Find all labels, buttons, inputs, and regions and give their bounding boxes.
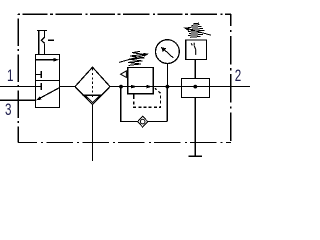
pressure switch S1 adjustable spring — [184, 23, 211, 37]
node junction dot left of regulator — [119, 85, 123, 89]
distributor block D1 — [182, 79, 210, 98]
regulator R1 flow arrows — [131, 85, 152, 89]
check valve CV1 bypass — [121, 87, 167, 128]
valve V1 blocked port lower T — [36, 83, 42, 90]
svg-text:3: 3 — [5, 100, 12, 118]
valve V1 blocked port upper T — [36, 71, 42, 78]
node 3 label — [5, 100, 12, 118]
wire filter drain line — [92, 105, 94, 162]
pressure gauge G1 — [156, 40, 180, 87]
node junction dot gauge stem — [166, 85, 170, 89]
valve V1 exhaust diagonal arrow — [36, 88, 60, 101]
node plugged port T-bar — [189, 155, 203, 157]
node 1 label — [7, 66, 14, 84]
pressure switch S1 body — [186, 40, 207, 60]
regulator R1 adjustable spring — [119, 51, 149, 65]
valve V1 manual slide actuator with detent — [37, 30, 54, 54]
wire port 3 line — [0, 99, 36, 101]
valve V1 top-cell flow arrow — [36, 58, 59, 62]
wire valve to filter — [60, 86, 76, 88]
regulator R1 pilot line (dashed) — [134, 88, 161, 107]
enclosure border (dash-dot) — [18, 14, 231, 142]
node junction dot distributor — [193, 85, 197, 89]
wire port 1 line — [0, 86, 36, 88]
svg-text:1: 1 — [7, 66, 14, 84]
wire main output line to port 2 — [110, 86, 250, 88]
regulator R1 relief vent triangle — [121, 71, 127, 78]
svg-text:2: 2 — [235, 66, 242, 84]
valve V1 on-off 3/2 body — [36, 55, 60, 108]
node 2 label — [235, 66, 242, 84]
filter F1 with water separator — [75, 67, 110, 104]
wire distributor down line — [194, 97, 196, 156]
wire switch stem — [194, 60, 196, 79]
regulator R1 body — [128, 67, 153, 93]
